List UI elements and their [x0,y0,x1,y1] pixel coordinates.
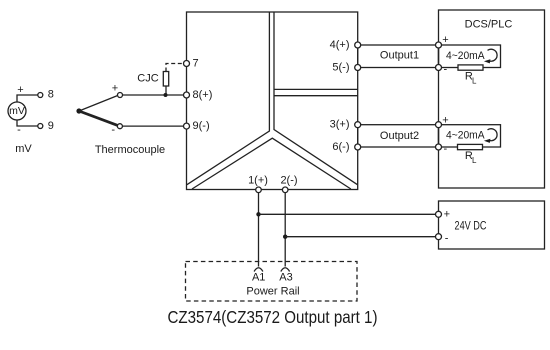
DCS terminal circle out2+ [436,122,442,128]
svg-text:CJC: CJC [137,73,158,85]
wire power minus vertical [284,193,286,267]
svg-text:Power Rail: Power Rail [246,286,299,298]
isolation barrier vertical+right diagonal [274,12,357,185]
terminal circle 3(+) [355,122,361,128]
svg-text:+: + [442,114,448,126]
svg-text:8: 8 [48,89,54,101]
terminal circle 4(+) [355,42,361,48]
power rail dashed box [186,262,358,302]
svg-text:CZ3574(CZ3572 Output part 1): CZ3574(CZ3572 Output part 1) [168,307,378,327]
svg-text:A3: A3 [279,272,292,284]
terminal circle 9 (mV) [38,124,43,129]
loop2 arrow [488,129,498,141]
wire mV minus [17,120,38,126]
output1 loop rectangle [358,45,439,68]
svg-text:-: - [17,124,21,136]
wire thermocouple plus to terminal 8(+) [123,94,184,96]
terminal circle 8(+) [184,92,190,98]
svg-text:1(+): 1(+) [248,175,268,187]
resistor RL2 [458,144,483,149]
resistor CJC [163,72,168,87]
svg-text:DCS/PLC: DCS/PLC [465,19,513,31]
svg-text:4(+): 4(+) [330,39,350,51]
svg-text:Output1: Output1 [380,49,419,61]
isolation barrier horizontal lower [274,95,358,97]
svg-text:9: 9 [48,120,54,132]
wire power plus vertical [258,193,260,267]
svg-text:+: + [442,34,448,46]
svg-text:Thermocouple: Thermocouple [95,144,165,156]
terminal circle 9(-) [184,123,190,129]
thermocouple plus terminal circle [118,93,123,98]
terminal circle 5(-) [355,65,361,71]
isolation barrier horizontal upper [274,88,358,90]
24V terminal minus circle [436,234,442,240]
thermocouple junction dot [76,108,81,113]
wire thermocouple minus to terminal 9(-) [123,125,184,127]
thermocouple minus terminal circle [117,124,122,129]
svg-text:8(+): 8(+) [193,89,213,101]
isolation barrier vertical+left diagonal [187,12,270,185]
thermocouple minus lead (thick) [79,111,118,126]
svg-text:-: - [445,232,449,244]
svg-text:6(-): 6(-) [332,141,349,153]
CJC junction dot [164,93,168,97]
svg-text:4~20mA: 4~20mA [446,130,485,142]
svg-text:L: L [472,156,477,165]
terminal circle 1(+) [256,187,262,193]
svg-text:9(-): 9(-) [193,120,210,132]
svg-text:-: - [443,143,447,155]
svg-text:24V DC: 24V DC [455,220,487,232]
svg-text:mV: mV [15,143,32,155]
loop1 arrow [488,49,498,61]
wire CJC resistor to node [165,86,167,94]
mV source circle [8,102,26,120]
svg-text:2(-): 2(-) [280,175,297,187]
svg-text:4~20mA: 4~20mA [446,50,485,62]
svg-text:mV: mV [9,105,25,117]
node power minus [283,235,287,239]
isolator main block [187,12,358,190]
terminal circle 6(-) [355,144,361,150]
terminal circle 8 (mV) [38,93,43,98]
svg-text:5(-): 5(-) [332,62,349,74]
DCS terminal circle out1- [436,65,442,71]
svg-text:-: - [443,64,447,76]
isolation barrier lower V [192,138,351,189]
24V terminal plus circle [436,211,442,217]
DCS terminal circle out2- [436,144,442,150]
output2 loop rectangle [358,125,439,147]
svg-text:7: 7 [193,58,199,70]
terminal circle 7 [184,61,190,67]
wire power minus horizontal [285,236,435,238]
svg-text:L: L [472,77,477,86]
svg-text:+: + [17,84,23,96]
wire mV plus [17,95,38,102]
dashed wire CJC to terminal 7 [166,64,184,72]
thermocouple plus lead [79,95,118,111]
node power plus [256,212,260,216]
wire power plus horizontal [259,213,436,215]
svg-text:A1: A1 [252,272,265,284]
24V DC box [439,201,545,249]
terminal circle 2(-) [282,187,288,193]
svg-text:-: - [111,124,115,136]
A1 plug arrow [254,268,263,272]
A3 plug arrow [281,268,290,272]
svg-text:+: + [444,208,450,220]
current loop 1 box [439,45,501,68]
resistor RL1 [458,65,483,70]
DCS/PLC box [439,10,545,188]
svg-text:+: + [112,82,118,94]
current loop 2 box [439,125,501,147]
svg-text:3(+): 3(+) [330,119,350,131]
DCS terminal circle out1+ [436,42,442,48]
svg-text:Output2: Output2 [380,130,419,142]
